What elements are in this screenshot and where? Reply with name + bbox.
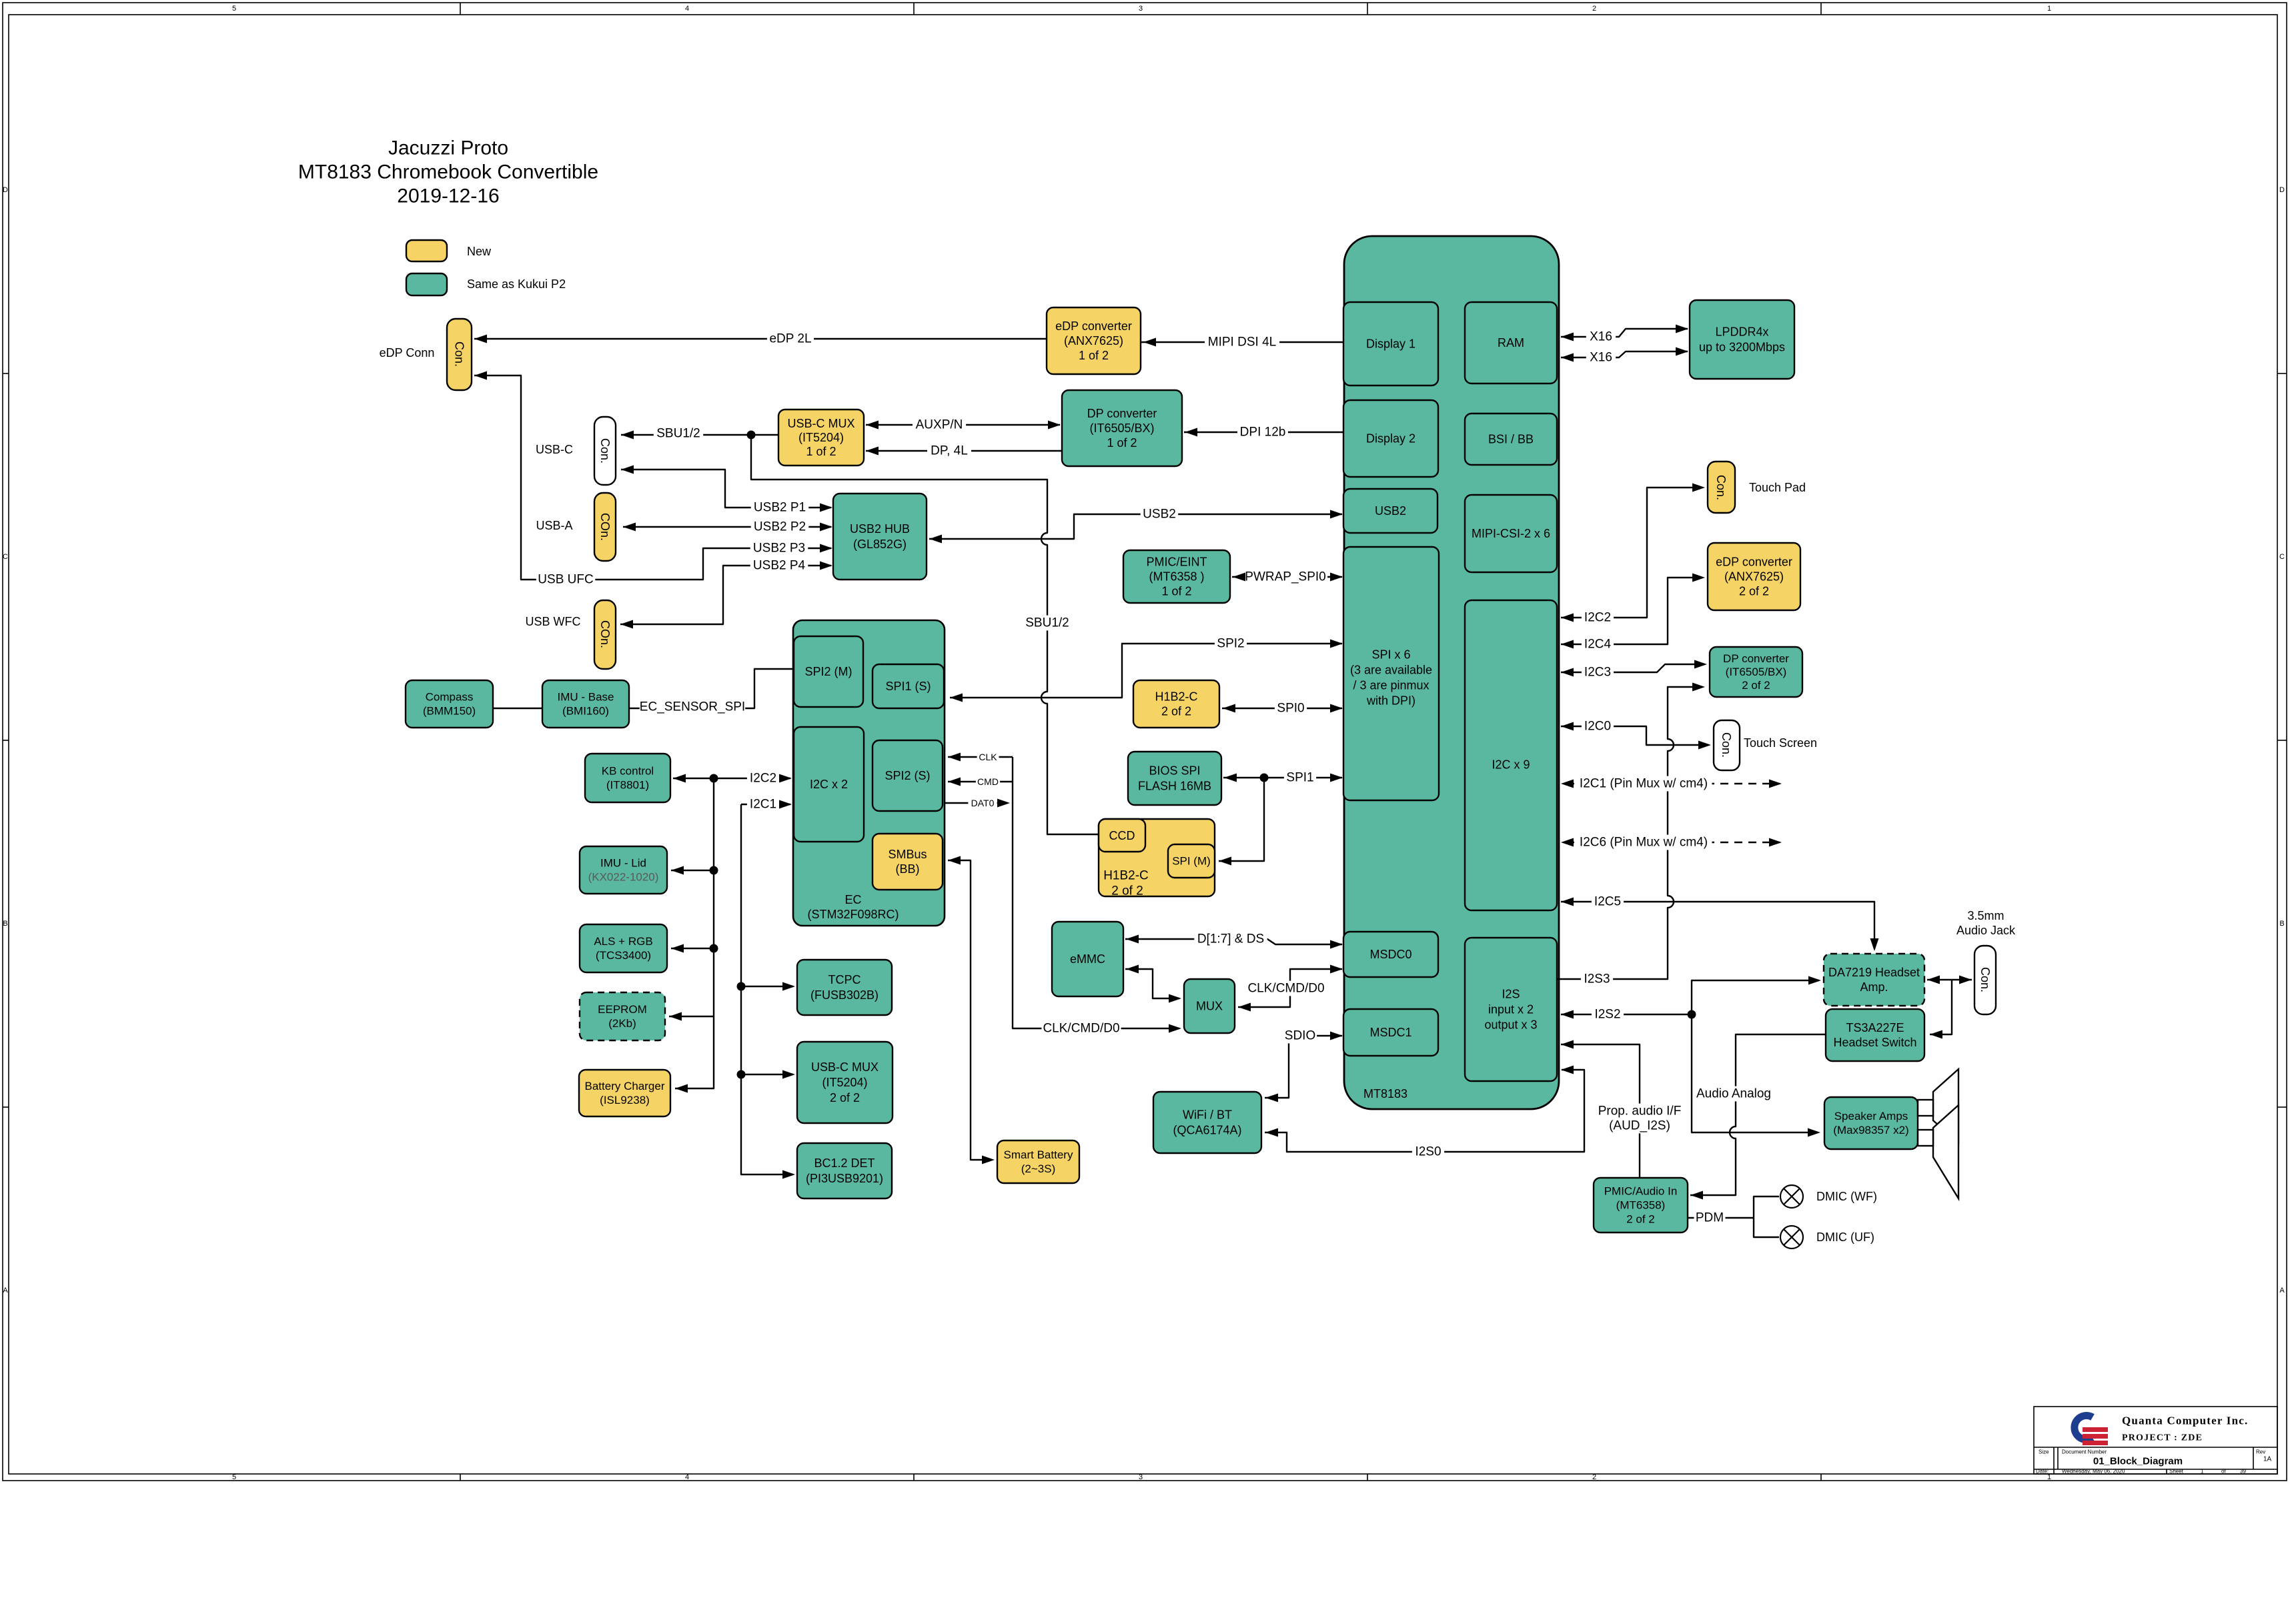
label: USB2 P4 <box>750 558 808 574</box>
label: I2C4 <box>1582 637 1614 652</box>
svg-text:(3 are available: (3 are available <box>1350 664 1432 677</box>
block: MUX <box>1184 979 1235 1033</box>
svg-text:USB-C MUX: USB-C MUX <box>811 1060 879 1074</box>
svg-text:I2C4: I2C4 <box>1584 638 1612 652</box>
svg-text:MSDC0: MSDC0 <box>1369 948 1411 961</box>
label: CMD <box>976 776 1000 788</box>
svg-text:B: B <box>2279 920 2284 928</box>
svg-text:(MT6358 ): (MT6358 ) <box>1149 570 1204 584</box>
svg-text:(BMI160): (BMI160) <box>562 705 609 718</box>
svg-text:Smart Battery: Smart Battery <box>1004 1148 1073 1161</box>
svg-text:Battery Charger: Battery Charger <box>585 1080 665 1092</box>
block: I2C x 9 <box>1465 600 1557 910</box>
svg-text:SPI (M): SPI (M) <box>1172 855 1211 868</box>
svg-text:SPI1: SPI1 <box>1286 771 1313 785</box>
legend: New <box>406 240 447 261</box>
svg-text:I2S3: I2S3 <box>1584 972 1610 986</box>
label: SPI1 <box>1284 770 1316 786</box>
block: USB-C MUX (IT5204) 2 of 2 <box>797 1042 893 1123</box>
svg-text:Con.: Con. <box>1978 967 1992 992</box>
block: USB2 HUB (GL852G) <box>833 494 927 580</box>
label: PWRAP_SPI0 <box>1243 570 1327 585</box>
wire: I2C2 (EC sensors) <box>669 778 790 1088</box>
block: ALS + RGB (TCS3400) <box>580 924 667 972</box>
svg-text:USB UFC: USB UFC <box>538 573 593 587</box>
wire: Compass-IMU link <box>494 708 542 709</box>
svg-text:1 of 2: 1 of 2 <box>1161 585 1191 598</box>
svg-text:X16: X16 <box>1590 330 1612 344</box>
svg-text:USB2 HUB: USB2 HUB <box>850 522 910 536</box>
label: USB2 P1 <box>751 500 809 516</box>
svg-text:PWRAP_SPI0: PWRAP_SPI0 <box>1245 570 1325 584</box>
svg-text:IMU - Lid: IMU - Lid <box>600 857 646 870</box>
wire: DPI 12b <box>1184 432 1343 433</box>
block: I2S block <box>1465 938 1557 1081</box>
svg-text:Date:: Date: <box>2036 1469 2049 1475</box>
svg-text:(MT6358): (MT6358) <box>1616 1199 1666 1212</box>
svg-text:PMIC/Audio In: PMIC/Audio In <box>1604 1185 1678 1198</box>
label: I2C2 <box>747 771 779 786</box>
svg-text:SPI1 (S): SPI1 (S) <box>885 680 931 693</box>
svg-text:Con.: Con. <box>1714 475 1728 500</box>
svg-text:2019-12-16: 2019-12-16 <box>397 185 499 207</box>
label: X16 <box>1586 350 1616 365</box>
svg-text:Rev: Rev <box>2256 1449 2265 1455</box>
block: RAM <box>1465 302 1557 383</box>
label: MIPI DSI 4L <box>1205 335 1279 350</box>
wire: USB2 P4 <box>620 566 831 624</box>
wire: Prop. audio I/F (AUD_I2S) <box>1561 1044 1640 1178</box>
svg-text:1: 1 <box>2047 1473 2051 1481</box>
svg-text:2 of 2: 2 of 2 <box>1111 884 1143 898</box>
svg-text:PROJECT : ZDE: PROJECT : ZDE <box>2122 1433 2203 1443</box>
svg-text:CLK: CLK <box>979 752 997 762</box>
label: I2C6 (Pin Mux w/ cm4) <box>1575 835 1712 850</box>
svg-text:eDP converter: eDP converter <box>1055 319 1132 333</box>
speaker icon top <box>1918 1069 1958 1143</box>
wire: CLK/CMD/D0 to MUX <box>1013 757 1179 1028</box>
svg-text:I2C3: I2C3 <box>1584 666 1611 680</box>
svg-text:DPI 12b: DPI 12b <box>1240 426 1286 440</box>
wire: I2S2 <box>1561 980 1819 1132</box>
block: SPI x 6 <box>1343 547 1439 800</box>
svg-text:SDIO: SDIO <box>1285 1029 1315 1043</box>
svg-text:(GL852G): (GL852G) <box>853 538 907 551</box>
svg-text:SPI2 (M): SPI2 (M) <box>804 665 852 678</box>
svg-text:3.5mm: 3.5mm <box>1967 909 2004 922</box>
connector: USB-C Con <box>594 417 616 485</box>
block: IMU - Lid (KX022-1020) <box>580 846 667 894</box>
svg-text:MIPI-CSI-2 x 6: MIPI-CSI-2 x 6 <box>1472 527 1550 540</box>
block: MSDC1 <box>1343 1009 1438 1056</box>
svg-text:eDP Conn: eDP Conn <box>380 346 435 359</box>
svg-text:(PI3USB9201): (PI3USB9201) <box>806 1172 883 1185</box>
svg-text:Sheet: Sheet <box>2169 1469 2184 1475</box>
block: BIOS SPI FLASH 16MB <box>1128 752 1221 805</box>
wire: USB2 P1 <box>621 470 831 508</box>
svg-text:D: D <box>2279 186 2285 194</box>
block: MIPI-CSI-2 x 6 <box>1465 495 1557 572</box>
label: USB2 P3 <box>750 541 808 556</box>
svg-text:EEPROM: EEPROM <box>598 1003 647 1016</box>
svg-text:39: 39 <box>2240 1469 2246 1475</box>
wire: CMD <box>948 781 1013 782</box>
label: EC_SENSOR_SPI <box>640 700 745 715</box>
block: SMBus (BB) <box>873 834 943 890</box>
label: X16 <box>1586 329 1616 345</box>
svg-text:USB2 P1: USB2 P1 <box>754 501 806 515</box>
svg-text:(ANX7625): (ANX7625) <box>1724 570 1784 584</box>
svg-text:MSDC1: MSDC1 <box>1369 1026 1411 1039</box>
svg-text:01_Block_Diagram: 01_Block_Diagram <box>2093 1456 2183 1467</box>
label: I2C2 <box>1582 610 1614 626</box>
svg-text:A: A <box>3 1287 8 1295</box>
block: Display 1 <box>1343 302 1438 385</box>
svg-text:LPDDR4x: LPDDR4x <box>1715 325 1768 339</box>
block: LPDDR4x up to 3200Mbps <box>1690 300 1794 379</box>
wire: MIPI DSI 4L <box>1141 341 1343 343</box>
block: BC1.2 DET (PI3USB9201) <box>797 1143 892 1198</box>
block: WiFi / BT (QCA6174A) <box>1153 1092 1261 1153</box>
svg-text:I2S0: I2S0 <box>1415 1145 1441 1159</box>
svg-text:TS3A227E: TS3A227E <box>1846 1021 1904 1034</box>
label: USB UFC <box>536 572 596 588</box>
connector: eDP Conn <box>447 319 472 390</box>
wire: I2S0 <box>1265 1070 1584 1152</box>
block: PMIC/Audio In (MT6358) 2 of 2 <box>1594 1178 1688 1233</box>
wire: SDIO <box>1265 1036 1342 1098</box>
block: Speaker Amps (Max98357 x2) <box>1824 1097 1918 1149</box>
block: KB control (IT8801) <box>585 754 670 802</box>
svg-text:/ 3 are pinmux: / 3 are pinmux <box>1353 679 1429 692</box>
svg-text:BSI / BB: BSI / BB <box>1488 433 1534 446</box>
block: DP converter (IT6505/BX) 1 of 2 <box>1062 390 1182 466</box>
svg-text:Display 1: Display 1 <box>1366 337 1415 351</box>
svg-text:2: 2 <box>1592 5 1596 13</box>
svg-text:(ISL9238): (ISL9238) <box>600 1094 650 1106</box>
legend: Same as Kukui P2 <box>406 273 447 295</box>
svg-text:(BMM150): (BMM150) <box>423 705 476 718</box>
svg-text:C: C <box>2279 553 2285 561</box>
svg-text:(IT6505/BX): (IT6505/BX) <box>1726 666 1787 678</box>
svg-text:SMBus: SMBus <box>888 848 927 861</box>
label: SPI2 <box>1215 636 1247 652</box>
block: IMU - Base (BMI160) <box>542 680 629 728</box>
block: DP converter (IT6505/BX) 2 of 2 <box>1710 647 1802 697</box>
label: I2C1 (Pin Mux w/ cm4) <box>1575 776 1712 792</box>
svg-text:I2S: I2S <box>1502 988 1520 1001</box>
svg-text:(IT6505/BX): (IT6505/BX) <box>1089 422 1154 435</box>
svg-text:PDM: PDM <box>1696 1211 1724 1225</box>
svg-text:2 of 2: 2 of 2 <box>1626 1213 1655 1226</box>
wire: eMMC-MUX <box>1125 969 1179 998</box>
svg-text:Compass: Compass <box>426 691 474 704</box>
block: eMMC <box>1052 922 1123 996</box>
connector: 3.5mm Audio Jack Con <box>1974 946 1996 1014</box>
wire: X16 lower <box>1561 351 1688 357</box>
svg-text:1 of 2: 1 of 2 <box>1079 349 1109 362</box>
wire: I2C3 <box>1561 664 1704 672</box>
svg-text:Jacuzzi Proto: Jacuzzi Proto <box>388 137 508 159</box>
svg-text:I2C2: I2C2 <box>1584 611 1611 625</box>
svg-text:DA7219 Headset: DA7219 Headset <box>1828 966 1920 979</box>
svg-text:KB control: KB control <box>602 765 654 778</box>
svg-text:2 of 2: 2 of 2 <box>1161 705 1191 718</box>
label: CLK <box>977 752 999 763</box>
connector: Touch Screen Con <box>1714 720 1740 770</box>
label: DAT0 <box>968 798 997 809</box>
label: I2C0 <box>1582 719 1614 734</box>
svg-text:(2~3S): (2~3S) <box>1021 1162 1056 1175</box>
svg-text:FLASH 16MB: FLASH 16MB <box>1138 780 1211 793</box>
svg-text:ALS + RGB: ALS + RGB <box>594 935 652 948</box>
svg-text:COn.: COn. <box>598 513 612 541</box>
svg-text:(IT8801): (IT8801) <box>606 779 649 792</box>
svg-text:Wednesday, May 06, 2020: Wednesday, May 06, 2020 <box>2062 1469 2125 1475</box>
mic DMIC (WF) <box>1780 1185 1803 1208</box>
svg-text:SPI0: SPI0 <box>1277 702 1304 716</box>
svg-text:DP converter: DP converter <box>1723 652 1789 665</box>
svg-text:eMMC: eMMC <box>1070 952 1105 966</box>
svg-text:Touch Pad: Touch Pad <box>1749 481 1806 494</box>
svg-text:(STM32F098RC): (STM32F098RC) <box>807 908 899 921</box>
svg-text:SBU1/2: SBU1/2 <box>656 427 700 441</box>
svg-text:Same as Kukui P2: Same as Kukui P2 <box>467 277 566 291</box>
svg-text:DAT0: DAT0 <box>971 798 995 808</box>
speaker icon bottom <box>1918 1105 1958 1198</box>
svg-text:CLK/CMD/D0: CLK/CMD/D0 <box>1043 1022 1119 1036</box>
svg-text:Touch Screen: Touch Screen <box>1744 736 1817 750</box>
svg-text:C: C <box>3 553 8 561</box>
label: I2S0 <box>1412 1144 1444 1160</box>
label: eDP 2L <box>767 331 814 347</box>
svg-text:IMU - Base: IMU - Base <box>557 691 614 704</box>
svg-text:USB WFC: USB WFC <box>526 615 581 628</box>
svg-text:DMIC (WF): DMIC (WF) <box>1816 1190 1877 1203</box>
svg-text:USB-C MUX: USB-C MUX <box>787 417 854 430</box>
svg-text:COn.: COn. <box>598 620 612 648</box>
wire: CLK <box>948 756 1013 758</box>
svg-text:Speaker Amps: Speaker Amps <box>1834 1110 1908 1122</box>
svg-text:DMIC (UF): DMIC (UF) <box>1816 1231 1874 1244</box>
svg-text:(TCS3400): (TCS3400) <box>596 949 651 962</box>
svg-text:(BB): (BB) <box>896 862 920 876</box>
svg-text:Con.: Con. <box>598 438 612 464</box>
svg-text:(FUSB302B): (FUSB302B) <box>810 988 879 1002</box>
label: Prop. audio I/F <box>1595 1104 1684 1119</box>
wire: USB UFC / USB2 P3 <box>474 375 831 580</box>
wire: I2S3 <box>1558 687 1702 979</box>
svg-text:EC_SENSOR_SPI: EC_SENSOR_SPI <box>640 700 745 714</box>
block: Smart Battery (2~3S) <box>997 1140 1079 1183</box>
label: I2S2 <box>1592 1007 1624 1022</box>
svg-text:CCD: CCD <box>1109 829 1135 842</box>
svg-text:Audio Jack: Audio Jack <box>1956 924 2016 937</box>
svg-text:BIOS SPI: BIOS SPI <box>1149 764 1200 778</box>
label: (AUD_I2S) <box>1607 1118 1672 1134</box>
svg-text:1 of 2: 1 of 2 <box>1107 436 1137 450</box>
wire: DP, 4L <box>866 450 1062 452</box>
label: I2S3 <box>1581 972 1613 987</box>
svg-text:H1B2-C: H1B2-C <box>1103 869 1149 883</box>
svg-text:1 of 2: 1 of 2 <box>806 445 836 458</box>
svg-text:(IT5204): (IT5204) <box>798 431 844 444</box>
wire: SPI2 <box>950 644 1342 698</box>
svg-text:USB-C: USB-C <box>536 443 573 456</box>
svg-text:Document Number: Document Number <box>2062 1449 2107 1455</box>
wire: EC_SENSOR_SPI <box>629 669 793 708</box>
svg-text:SPI2: SPI2 <box>1217 637 1244 651</box>
svg-text:USB2: USB2 <box>1143 508 1176 522</box>
svg-text:H1B2-C: H1B2-C <box>1155 690 1197 704</box>
label: AUXP/N <box>913 418 966 433</box>
svg-text:DP, 4L: DP, 4L <box>931 444 968 458</box>
label: SPI0 <box>1275 701 1307 716</box>
svg-text:I2C5: I2C5 <box>1594 895 1621 909</box>
wire: SMBus - Smart Battery <box>948 860 992 1160</box>
block: EEPROM (2Kb) <box>580 992 665 1040</box>
svg-text:USB-A: USB-A <box>536 519 572 532</box>
svg-text:2 of 2: 2 of 2 <box>1742 679 1770 692</box>
wire: X16 upper <box>1561 329 1688 337</box>
block: USB2 port <box>1343 489 1438 533</box>
svg-text:input x 2: input x 2 <box>1488 1003 1534 1016</box>
svg-text:eDP 2L: eDP 2L <box>769 332 811 346</box>
wire: DAT0 <box>945 802 1007 804</box>
svg-text:(QCA6174A): (QCA6174A) <box>1173 1124 1241 1137</box>
wire: D[1:7] & DS <box>1125 939 1342 944</box>
block: MT8183 SoC <box>1344 236 1559 1109</box>
svg-text:(IT5204): (IT5204) <box>822 1076 867 1089</box>
label: SBU1/2 <box>654 426 703 442</box>
block: Battery Charger (ISL9238) <box>579 1070 670 1116</box>
svg-text:RAM: RAM <box>1498 336 1524 349</box>
mic DMIC (UF) <box>1780 1226 1803 1249</box>
svg-text:MT8183: MT8183 <box>1363 1087 1407 1100</box>
svg-text:5: 5 <box>232 5 236 13</box>
label: DPI 12b <box>1237 425 1288 440</box>
svg-text:I2C1: I2C1 <box>750 798 776 812</box>
svg-text:SBU1/2: SBU1/2 <box>1025 616 1069 630</box>
label: DP, 4L <box>927 444 971 459</box>
wire: MSDC0-MUX CLK/CMD/D0 <box>1238 969 1342 1007</box>
wire: I2C1 (TCPC/MUX/BC1.2) <box>741 804 793 1174</box>
block: CCD <box>1099 819 1145 852</box>
label: CLK/CMD/D0 <box>1246 981 1325 996</box>
label: I2C5 <box>1592 894 1624 910</box>
block: TS3A227E Headset Switch <box>1826 1009 1924 1061</box>
svg-text:I2C6 (Pin Mux w/ cm4): I2C6 (Pin Mux w/ cm4) <box>1580 836 1708 850</box>
svg-text:X16: X16 <box>1590 351 1612 365</box>
connector: Touch Pad Con <box>1708 462 1735 513</box>
svg-text:2: 2 <box>1592 1473 1596 1481</box>
wire: eDP 2L <box>474 338 1047 339</box>
label: USB2 P2 <box>751 520 809 535</box>
svg-text:Quanta Computer Inc.: Quanta Computer Inc. <box>2122 1415 2248 1427</box>
svg-text:I2C0: I2C0 <box>1584 720 1611 734</box>
wire: SBU1/2 <box>621 435 1099 834</box>
svg-text:New: New <box>467 245 492 258</box>
wire: I2C5 <box>1561 902 1874 949</box>
svg-text:D: D <box>3 186 8 194</box>
label: SBU1/2 <box>1023 616 1072 631</box>
svg-text:MT8183 Chromebook Convertible: MT8183 Chromebook Convertible <box>298 161 598 183</box>
svg-text:up to 3200Mbps: up to 3200Mbps <box>1699 341 1785 354</box>
wire: I2C1 (Pin Mux w/ cm4) <box>1566 783 1780 784</box>
svg-text:I2C x 2: I2C x 2 <box>810 778 848 791</box>
svg-text:Size: Size <box>2039 1449 2049 1455</box>
svg-text:2 of 2: 2 of 2 <box>1739 585 1769 598</box>
wire: USB2 P2 <box>623 526 831 528</box>
label: SDIO <box>1283 1028 1317 1044</box>
block: H1B2-C 2 of 2 (lower, with CCD and SPI (M)) <box>1099 819 1215 896</box>
block: H1B2-C 2 of 2 (upper) <box>1133 680 1219 728</box>
title block <box>2034 1407 2277 1474</box>
svg-text:SPI2 (S): SPI2 (S) <box>885 769 930 782</box>
svg-text:eDP converter: eDP converter <box>1716 556 1792 569</box>
svg-text:D[1:7] & DS: D[1:7] & DS <box>1197 932 1264 946</box>
svg-text:EC: EC <box>844 893 861 906</box>
svg-text:4: 4 <box>685 1473 689 1481</box>
svg-text:of: of <box>2221 1469 2226 1475</box>
svg-text:CMD: CMD <box>977 776 999 787</box>
block: I2C x 2 <box>794 727 864 842</box>
block: SPI (M) <box>1168 844 1215 878</box>
block: SPI2 (M) <box>794 636 863 707</box>
svg-text:TCPC: TCPC <box>828 973 861 986</box>
svg-text:I2C2: I2C2 <box>750 772 776 786</box>
label: I2C3 <box>1582 665 1614 680</box>
svg-text:I2S2: I2S2 <box>1594 1008 1620 1022</box>
wire: Audio Analog <box>1690 1034 1826 1195</box>
svg-text:Prop. audio I/F: Prop. audio I/F <box>1598 1104 1682 1118</box>
block: TCPC (FUSB302B) <box>797 960 892 1015</box>
svg-text:(2Kb): (2Kb) <box>608 1017 636 1030</box>
svg-text:USB2 P2: USB2 P2 <box>754 520 806 534</box>
svg-text:4: 4 <box>685 5 689 13</box>
svg-text:WiFi / BT: WiFi / BT <box>1183 1108 1232 1122</box>
svg-text:Headset Switch: Headset Switch <box>1833 1036 1916 1049</box>
label: USB2 <box>1141 507 1179 522</box>
svg-text:I2C1 (Pin Mux w/ cm4): I2C1 (Pin Mux w/ cm4) <box>1580 777 1708 791</box>
wire: AUXP/N <box>866 424 1060 426</box>
svg-text:BC1.2 DET: BC1.2 DET <box>814 1156 875 1170</box>
svg-text:1: 1 <box>2201 1469 2204 1475</box>
wire: USB2 hub-SoC <box>929 514 1342 539</box>
block: MSDC0 <box>1343 932 1438 977</box>
wire: SPI1 <box>1219 778 1342 861</box>
connector: USB WFC Con <box>594 600 616 669</box>
svg-text:3: 3 <box>1139 1473 1143 1481</box>
svg-text:(ANX7625): (ANX7625) <box>1064 334 1123 347</box>
svg-text:with DPI): with DPI) <box>1366 694 1415 708</box>
svg-text:5: 5 <box>232 1473 236 1481</box>
svg-text:B: B <box>3 920 7 928</box>
svg-text:A: A <box>2279 1287 2285 1295</box>
wire: I2C6 (Pin Mux w/ cm4) <box>1566 842 1780 843</box>
svg-text:DP converter: DP converter <box>1087 407 1157 420</box>
svg-text:output x 3: output x 3 <box>1484 1018 1537 1032</box>
block: SPI2 (S) <box>873 740 943 811</box>
block: eDP converter (ANX7625) 2 of 2 <box>1708 543 1800 610</box>
svg-text:(KX022-1020): (KX022-1020) <box>588 871 659 884</box>
wire: DA7219-jack + TS3A branch <box>1927 980 1972 1034</box>
block: BSI / BB <box>1465 414 1557 465</box>
svg-text:USB2 P3: USB2 P3 <box>753 542 805 556</box>
block: Compass (BMM150) <box>406 680 493 728</box>
svg-text:Display 2: Display 2 <box>1366 432 1415 446</box>
block: PMIC/EINT (MT6358) 1 of 2 <box>1123 550 1230 603</box>
